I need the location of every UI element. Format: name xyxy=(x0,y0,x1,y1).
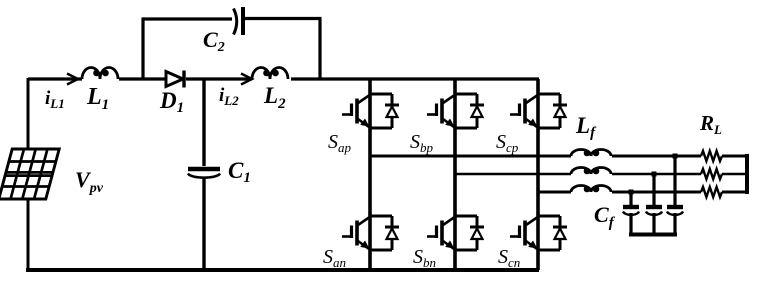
diode D1 xyxy=(166,71,184,88)
wire phase A output xyxy=(370,155,747,158)
wire inverter leg A xyxy=(368,79,372,270)
node tap phase A to Cf xyxy=(673,154,678,159)
wire load right vertical xyxy=(745,154,749,194)
wire Cf leg 1 xyxy=(629,192,632,236)
resistor RL phase B xyxy=(701,169,722,179)
capacitor Cf 3 xyxy=(667,207,683,215)
igbt switch San xyxy=(342,216,399,250)
wire phase C output xyxy=(538,191,747,194)
arrow current iL2 xyxy=(241,74,252,85)
capacitor Cf 2 xyxy=(646,207,662,215)
wire C2 branch top left xyxy=(142,17,233,20)
arrow current iL1 xyxy=(67,74,78,85)
wire phase B output xyxy=(455,173,747,175)
igbt switch Scn xyxy=(510,216,567,250)
inductor Lf phase A xyxy=(571,150,611,157)
inductor L2 xyxy=(252,68,288,80)
wire Cf leg 2 xyxy=(652,174,655,236)
inductor Lf phase C xyxy=(571,186,611,193)
igbt switch Sbn xyxy=(427,216,484,250)
capacitor Cf 1 xyxy=(623,207,639,215)
wire left vertical xyxy=(27,78,30,270)
wire C2 branch right leg xyxy=(318,19,321,81)
igbt switch Scp xyxy=(510,94,567,128)
capacitor C1 xyxy=(188,169,220,178)
wire top main rail xyxy=(28,77,539,80)
wire Cf common bottom xyxy=(629,233,677,237)
inductor Lf phase B xyxy=(571,168,611,175)
photovoltaic panel Vpv xyxy=(0,149,59,199)
resistor RL phase A xyxy=(701,151,722,161)
wire bottom rail xyxy=(26,268,539,272)
wire C1 branch xyxy=(202,79,205,270)
igbt switch Sbp xyxy=(427,94,484,128)
wire inverter leg C xyxy=(536,79,540,270)
node tap phase B to Cf xyxy=(652,172,657,177)
resistor RL phase C xyxy=(701,187,722,197)
inductor L1 xyxy=(82,68,118,80)
wire C2 branch left leg xyxy=(141,19,144,80)
wire inverter leg B xyxy=(453,79,457,270)
capacitor C2 xyxy=(234,7,244,35)
node tap phase C to Cf xyxy=(629,190,634,195)
wire C2 branch top right xyxy=(245,17,322,20)
wire Cf leg 3 xyxy=(673,156,676,236)
igbt switch Sap xyxy=(342,94,399,128)
